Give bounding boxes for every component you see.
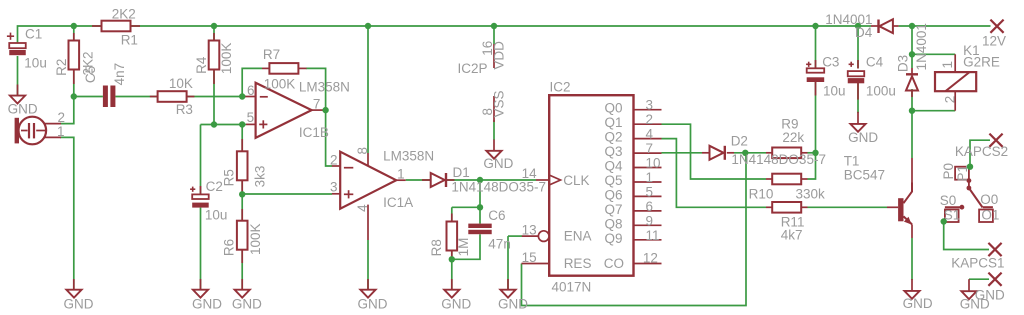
svg-text:12V: 12V [982,33,1006,48]
svg-text:10K: 10K [169,76,193,91]
svg-text:GND: GND [232,297,262,312]
svg-text:1: 1 [646,170,654,185]
svg-text:5: 5 [247,110,255,125]
svg-text:C2: C2 [206,179,223,194]
svg-text:BC547: BC547 [844,168,885,183]
svg-text:R6: R6 [222,239,237,256]
svg-text:R8: R8 [429,239,444,256]
svg-text:O0: O0 [980,192,998,207]
svg-text:1M: 1M [456,238,471,257]
svg-text:1N4001: 1N4001 [914,23,929,70]
svg-text:11: 11 [646,228,660,243]
svg-text:S1: S1 [944,208,961,223]
svg-text:5: 5 [646,184,654,199]
svg-text:G2RE: G2RE [963,54,1000,69]
svg-text:9: 9 [646,213,654,228]
svg-text:22k: 22k [782,130,804,145]
svg-text:2: 2 [646,112,654,127]
svg-text:2K2: 2K2 [112,6,136,21]
svg-text:D4: D4 [855,25,873,40]
svg-text:1: 1 [57,124,65,139]
svg-text:KAPCS2: KAPCS2 [955,144,1008,159]
svg-text:C6: C6 [488,208,505,223]
svg-text:4k7: 4k7 [781,228,803,243]
svg-text:6: 6 [247,83,255,98]
svg-text:P0: P0 [941,163,956,180]
svg-text:2: 2 [943,96,958,104]
svg-text:R2: R2 [54,59,69,76]
svg-text:CLK: CLK [563,173,589,188]
svg-text:GND: GND [848,130,878,145]
svg-text:GND: GND [903,296,933,311]
svg-text:R4: R4 [194,56,209,74]
svg-text:Q8: Q8 [604,216,622,231]
svg-text:GND: GND [483,156,513,171]
svg-text:Q1: Q1 [604,115,622,130]
svg-text:Q6: Q6 [604,187,622,202]
svg-text:T1: T1 [844,153,860,168]
svg-text:100u: 100u [866,84,896,99]
svg-text:47n: 47n [488,236,511,251]
svg-text:10u: 10u [24,56,47,71]
svg-text:S0: S0 [940,193,957,208]
svg-text:O1: O1 [981,208,999,223]
svg-text:14: 14 [522,166,538,181]
svg-text:GND: GND [498,297,528,312]
svg-text:7: 7 [313,96,321,111]
svg-text:C1: C1 [25,26,42,41]
svg-text:IC1A: IC1A [383,195,413,210]
svg-text:C3: C3 [822,55,839,70]
svg-text:LM358N: LM358N [299,80,350,95]
svg-text:Q4: Q4 [604,159,623,174]
svg-text:IC1B: IC1B [299,125,329,140]
svg-text:VDD: VDD [492,41,507,70]
svg-text:Q3: Q3 [604,144,622,159]
svg-text:R3: R3 [176,102,193,117]
svg-text:C5: C5 [83,66,98,83]
svg-text:4: 4 [355,204,370,212]
svg-text:7: 7 [646,141,654,156]
svg-text:Q0: Q0 [604,101,622,116]
svg-text:100K: 100K [248,223,263,255]
svg-text:KAPCS1: KAPCS1 [951,256,1004,271]
svg-text:CO: CO [604,256,624,271]
svg-text:13: 13 [522,223,537,238]
svg-text:R7: R7 [263,47,280,62]
svg-text:R1: R1 [121,32,138,47]
svg-text:3: 3 [330,180,338,195]
svg-text:3: 3 [646,98,654,113]
svg-text:GND: GND [64,297,94,312]
svg-text:10u: 10u [205,208,228,223]
svg-text:15: 15 [522,250,537,265]
svg-text:1N4148DO35-7: 1N4148DO35-7 [451,179,546,194]
svg-text:Q5: Q5 [604,173,622,188]
svg-text:ENA: ENA [564,229,592,244]
svg-text:IC2: IC2 [550,79,571,94]
svg-text:GND: GND [358,297,388,312]
svg-text:D3: D3 [895,55,910,72]
svg-text:GND: GND [960,297,990,312]
svg-text:4n7: 4n7 [112,63,127,86]
svg-text:4017N: 4017N [552,279,592,294]
svg-text:Q7: Q7 [604,202,622,217]
svg-text:8: 8 [355,147,370,155]
svg-text:6: 6 [646,199,654,214]
svg-text:VSS: VSS [492,90,507,117]
svg-text:330k: 330k [796,187,826,202]
svg-text:10: 10 [646,156,661,171]
svg-text:3k3: 3k3 [253,166,268,188]
svg-text:P1: P1 [955,165,970,182]
svg-text:Q9: Q9 [604,231,622,246]
svg-text:GND: GND [192,297,222,312]
svg-text:GND: GND [8,101,38,116]
svg-text:D1: D1 [453,165,470,180]
svg-text:12: 12 [643,251,658,266]
svg-text:R5: R5 [222,169,237,186]
svg-text:2: 2 [57,110,65,125]
svg-text:R10: R10 [749,187,774,202]
svg-text:IC2P: IC2P [458,61,488,76]
svg-text:Q2: Q2 [604,130,622,145]
svg-text:10u: 10u [823,84,846,99]
svg-text:1N4148DO35-7: 1N4148DO35-7 [731,152,826,167]
svg-text:4: 4 [646,127,654,142]
svg-text:1: 1 [940,61,955,69]
svg-text:GND: GND [441,297,471,312]
svg-text:1: 1 [397,166,405,181]
svg-text:100K: 100K [219,43,234,75]
svg-text:100K: 100K [264,77,296,92]
svg-text:LM358N: LM358N [383,149,434,164]
svg-text:RES: RES [564,256,592,271]
svg-text:C4: C4 [866,55,884,70]
svg-text:D2: D2 [731,134,748,149]
svg-text:2: 2 [330,153,338,168]
